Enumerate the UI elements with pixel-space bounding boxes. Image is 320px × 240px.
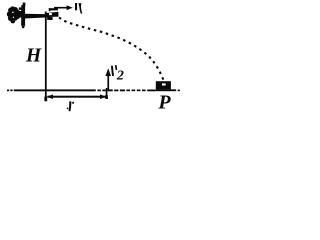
dimension arrowhead left xyxy=(47,94,53,99)
launcher spindle post xyxy=(19,3,26,29)
svg-text:2: 2 xyxy=(116,69,124,84)
height line xyxy=(45,12,47,98)
tick at s right end xyxy=(106,88,108,99)
label v1 xyxy=(75,3,82,14)
svg-text:H: H xyxy=(25,46,42,67)
launcher barrel xyxy=(25,14,51,19)
target box P xyxy=(156,81,171,89)
muzzle body xyxy=(45,12,59,17)
velocity arrow v1 xyxy=(54,5,73,10)
ground line xyxy=(7,89,180,91)
muzzle lower lip xyxy=(47,17,52,20)
svg-text:P: P xyxy=(157,91,171,113)
label s xyxy=(67,101,74,111)
trajectory dotted path xyxy=(59,18,164,81)
label v2 xyxy=(111,65,124,84)
height line bottom blob xyxy=(44,97,47,102)
velocity arrow v2 xyxy=(105,68,111,90)
muzzle top bar xyxy=(49,8,58,11)
launcher rosette xyxy=(7,6,22,23)
dimension line s xyxy=(48,96,106,98)
dimension arrowhead right xyxy=(100,94,106,99)
